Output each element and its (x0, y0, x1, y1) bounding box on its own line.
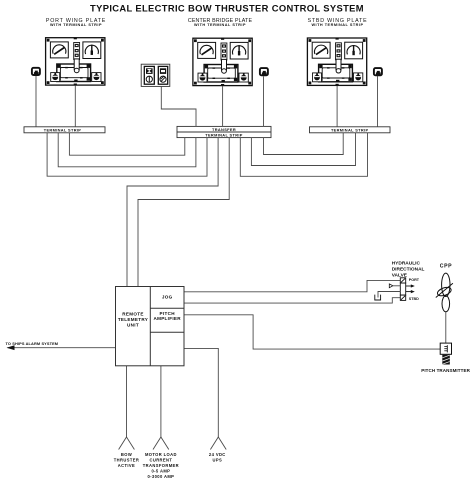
svg-text:THRUSTER: THRUSTER (114, 458, 140, 463)
pitch transmitter body (442, 355, 450, 365)
svg-text:CURRENT: CURRENT (149, 458, 172, 463)
svg-text:TERMINAL STRIP: TERMINAL STRIP (44, 128, 82, 133)
valve output arrows (406, 286, 412, 292)
remote telemetry unit box (116, 287, 185, 366)
wire to motor load transformer (160, 366, 162, 437)
svg-text:TERMINAL STRIP: TERMINAL STRIP (331, 128, 369, 133)
fork bow thruster (119, 437, 135, 450)
wire telemetry to 24vdc ups (184, 348, 218, 437)
valve tank symbol (375, 295, 381, 300)
wire port panel to port strip (74, 86, 76, 127)
svg-text:UPS: UPS (212, 458, 222, 463)
svg-text:PITCH TRANSMITTER: PITCH TRANSMITTER (421, 368, 470, 373)
wire port strip to transfer 1 (69, 133, 184, 155)
svg-text:24 VDC: 24 VDC (209, 452, 226, 457)
svg-text:AMPLIFIER: AMPLIFIER (153, 316, 181, 321)
dimmer unit center bridge (141, 64, 170, 86)
svg-text:TELEMETRY: TELEMETRY (118, 317, 148, 322)
svg-text:UNIT: UNIT (127, 322, 139, 327)
svg-text:PORT: PORT (409, 278, 420, 282)
svg-text:TRANSFER: TRANSFER (212, 127, 236, 132)
wire transfer to stbd strip 1 (264, 133, 344, 155)
label center bridge plate (188, 18, 253, 27)
label bow thruster active (114, 452, 140, 468)
label motor load current transformer (143, 452, 179, 479)
panel port wing plate (46, 37, 105, 85)
wire jog to valve stbd solenoid (184, 298, 400, 303)
wire port strip to transfer 2 (58, 133, 196, 167)
svg-text:JOG: JOG (162, 295, 173, 300)
svg-text:HYDRAULIC: HYDRAULIC (392, 260, 421, 266)
svg-text:TERMINAL STRIP: TERMINAL STRIP (205, 133, 243, 138)
wire transfer to telemetry unit 1 (127, 138, 218, 287)
wire pitch amplifier to pitch transmitter (184, 315, 440, 349)
wire to ships alarm system (8, 347, 116, 349)
wire transfer to telemetry unit 2 (138, 138, 229, 287)
jack connector center (260, 68, 268, 75)
label port wing plate (46, 18, 106, 27)
terminal strip port (24, 127, 105, 133)
wire center panel to transfer strip (222, 86, 224, 126)
wire transfer to stbd strip 3 (240, 133, 367, 177)
wire stbd jack to stbd strip (377, 76, 379, 127)
panel center bridge plate (193, 38, 252, 86)
svg-text:MOTOR LOAD: MOTOR LOAD (145, 452, 177, 457)
fork motor load (153, 437, 169, 450)
svg-text:0-5 AMP: 0-5 AMP (151, 469, 170, 474)
wire jog to valve port solenoid (184, 280, 400, 291)
svg-text:WITH TERMINAL STRIP: WITH TERMINAL STRIP (194, 23, 246, 27)
svg-text:BOW: BOW (121, 452, 132, 457)
svg-text:0-3000 AMP: 0-3000 AMP (147, 474, 174, 479)
terminal strip stbd (310, 127, 391, 133)
label 24 vdc ups (209, 452, 226, 463)
wire stbd panel to stbd strip (336, 86, 338, 127)
fork 24vdc (210, 437, 226, 450)
label stbd wing plate (308, 18, 368, 27)
pitch transmitter box (440, 343, 451, 354)
cpp shaft wire (445, 312, 447, 343)
svg-text:WITH TERMINAL STRIP: WITH TERMINAL STRIP (311, 23, 363, 27)
panel stbd wing plate (307, 38, 366, 86)
svg-text:TYPICAL ELECTRIC BOW THRUSTER: TYPICAL ELECTRIC BOW THRUSTER CONTROL SY… (90, 2, 364, 13)
svg-text:ACTIVE: ACTIVE (118, 463, 135, 468)
valve pilot triangle (389, 284, 393, 288)
wire port jack to port strip (35, 76, 37, 127)
cpp propeller (436, 273, 453, 312)
wire transfer to stbd strip 2 (251, 133, 355, 166)
label remote telemetry unit (118, 295, 181, 328)
jack connector stbd (374, 68, 382, 75)
svg-text:REMOTE: REMOTE (122, 312, 143, 317)
wire to bow thruster active (126, 366, 128, 437)
svg-text:CPP: CPP (440, 264, 452, 270)
transfer terminal strip (177, 126, 271, 137)
svg-text:DIRECTIONAL: DIRECTIONAL (392, 266, 425, 272)
svg-text:TRANSFORMER: TRANSFORMER (143, 463, 179, 468)
label hydraulic directional valve (392, 260, 425, 278)
svg-text:WITH TERMINAL STRIP: WITH TERMINAL STRIP (50, 23, 102, 27)
svg-text:PITCH: PITCH (160, 311, 176, 316)
jack connector port (32, 68, 40, 75)
svg-text:TO SHIPS ALARM SYSTEM: TO SHIPS ALARM SYSTEM (6, 341, 59, 346)
hydraulic directional valve body (400, 278, 405, 301)
wire center jack to transfer strip (263, 76, 265, 126)
wire dimmer unit to transfer strip (161, 86, 196, 126)
arrow ships alarm (7, 345, 15, 350)
svg-text:STBD: STBD (409, 297, 419, 301)
wire port strip to transfer 3 (47, 133, 207, 176)
